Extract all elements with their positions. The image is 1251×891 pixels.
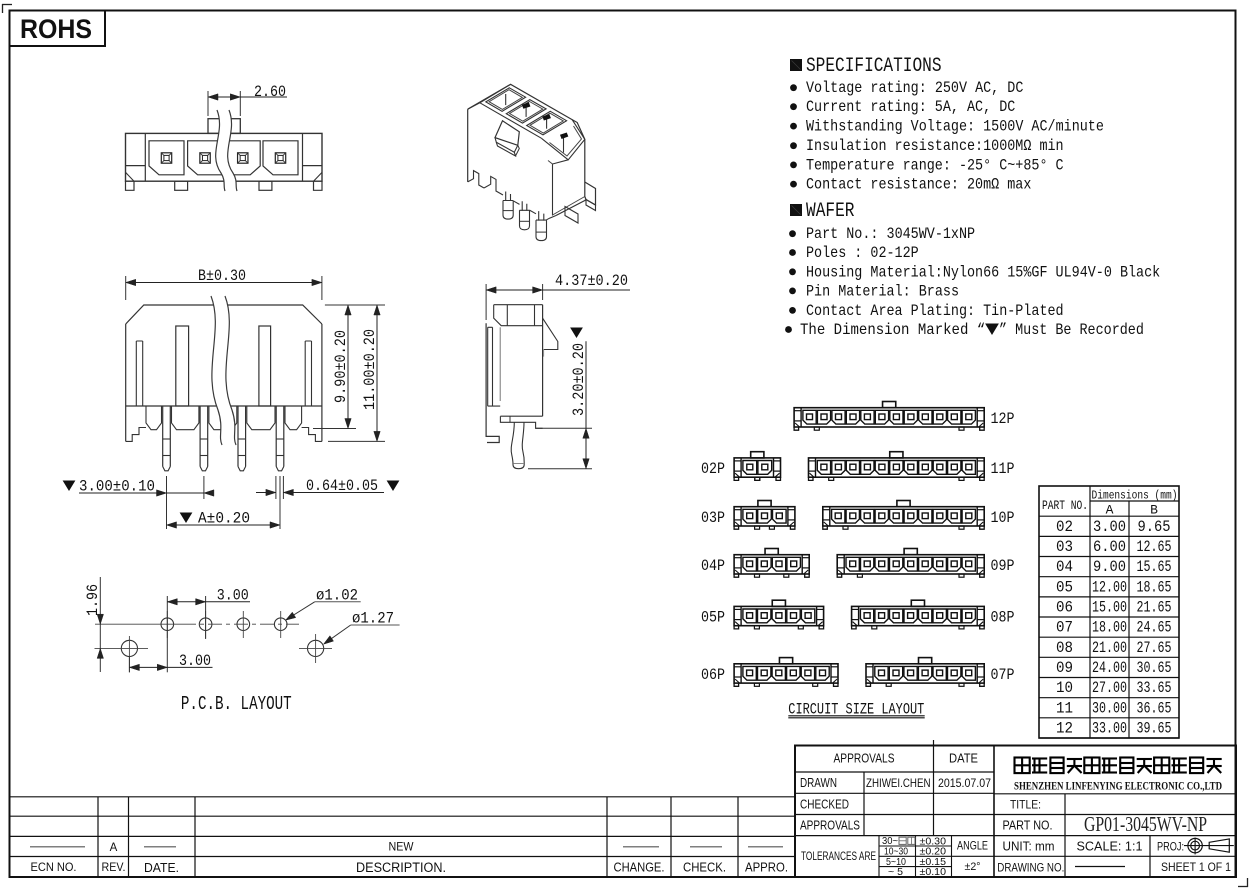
iso top opening 1 <box>486 88 526 112</box>
svg-text:12P: 12P <box>991 410 1015 428</box>
wafer bullet line 3 <box>789 268 796 275</box>
svg-text:30.65: 30.65 <box>1137 659 1172 677</box>
svg-text:Current rating: 5A, AC, DC: Current rating: 5A, AC, DC <box>806 98 1015 116</box>
circuit layout connector 04P <box>734 555 809 574</box>
front view cavity 2 <box>188 141 223 175</box>
svg-text:24.00: 24.00 <box>1092 659 1127 677</box>
svg-text:Part No.: 3045WV-1xNP: Part No.: 3045WV-1xNP <box>806 225 975 243</box>
svg-text:11: 11 <box>1056 699 1073 717</box>
dimension 9.90±0.20 extension lines <box>325 304 385 306</box>
svg-text:07P: 07P <box>991 666 1015 684</box>
dimension 3.20±0.20 line <box>536 427 592 429</box>
front view break lines <box>216 110 237 191</box>
part no dimensions table <box>1039 486 1179 738</box>
svg-text:11P: 11P <box>991 460 1015 478</box>
svg-text:Contact resistance: 20mΩ max: Contact resistance: 20mΩ max <box>806 176 1031 194</box>
pcb hole 1 (ø1.02) <box>161 618 174 631</box>
pcb leader ø1.27 <box>351 624 400 626</box>
svg-text:2015.07.07: 2015.07.07 <box>938 776 991 790</box>
svg-text:±2°: ±2° <box>965 861 981 873</box>
svg-text:4.37±0.20: 4.37±0.20 <box>555 272 628 290</box>
front view pin 2 <box>200 153 210 163</box>
pcb hole 3 (ø1.02) <box>237 618 250 631</box>
revision row A <box>30 846 85 848</box>
circuit layout connector 03P <box>734 507 795 526</box>
svg-text:09: 09 <box>1056 659 1073 677</box>
dimension 3.00±0.10 extension lines <box>166 476 168 529</box>
pcb centerline solid <box>95 623 182 625</box>
svg-text:TOLERANCES ARE: TOLERANCES ARE <box>801 851 876 863</box>
svg-text:1.96: 1.96 <box>84 584 102 616</box>
pcb dim 3.00 bottom <box>128 656 130 672</box>
svg-text:A: A <box>1106 503 1114 518</box>
svg-text:9.90±0.20: 9.90±0.20 <box>332 330 350 403</box>
svg-text:CHECKED: CHECKED <box>800 797 849 812</box>
svg-text:DRAWN: DRAWN <box>800 775 837 790</box>
front view cavity 4 <box>263 141 298 175</box>
svg-text:A±0.20: A±0.20 <box>198 510 250 528</box>
svg-text:3.00±0.10: 3.00±0.10 <box>79 478 155 496</box>
svg-text:~ 5: ~ 5 <box>888 866 903 878</box>
pcb hole left (ø1.27) <box>121 640 137 656</box>
circuit layout connector 09P <box>837 555 984 574</box>
svg-text:DATE.: DATE. <box>144 860 179 875</box>
svg-text:09P: 09P <box>991 557 1015 575</box>
iso pin 3 <box>539 211 544 221</box>
svg-text:05P: 05P <box>701 609 725 627</box>
svg-text:21.65: 21.65 <box>1137 599 1172 617</box>
svg-text:SCALE: 1:1: SCALE: 1:1 <box>1077 840 1143 854</box>
side view pin 2 <box>200 406 208 467</box>
circuit layout connector 02P <box>734 458 780 477</box>
svg-text:15.00: 15.00 <box>1092 599 1127 617</box>
front view cavity 3 <box>225 141 260 175</box>
side view body outline <box>126 305 322 324</box>
svg-text:27.00: 27.00 <box>1092 679 1127 697</box>
svg-text:24.65: 24.65 <box>1137 619 1172 637</box>
iso pin 2 <box>522 201 527 211</box>
side view notched bottom edge <box>146 406 162 430</box>
front view pin 4 <box>275 153 285 163</box>
dimension 4.37±0.20 line <box>486 289 542 291</box>
ROHS logo box <box>10 11 106 47</box>
iso right face edges <box>553 160 569 216</box>
circuit layout connector 12P <box>794 408 984 427</box>
dimension B±0.30 extension lines <box>125 276 127 300</box>
svg-text:Voltage rating: 250V AC, DC: Voltage rating: 250V AC, DC <box>806 79 1023 97</box>
svg-text:Housing Material:Nylon66 15%GF: Housing Material:Nylon66 15%GF UL94V-0 B… <box>806 263 1160 281</box>
svg-text:A: A <box>110 842 118 854</box>
svg-text:Temperature range: -25° C~+85°: Temperature range: -25° C~+85° C <box>806 156 1064 174</box>
svg-text:06: 06 <box>1056 599 1073 617</box>
svg-text:02: 02 <box>1056 518 1073 536</box>
dimension 2.60 line with arrows <box>208 96 287 98</box>
svg-text:±0.10: ±0.10 <box>920 866 947 878</box>
svg-text:CHECK.: CHECK. <box>683 861 726 875</box>
svg-text:SPECIFICATIONS: SPECIFICATIONS <box>806 55 942 78</box>
dimension A±0.20 label <box>181 513 192 522</box>
pcb centerline dashed <box>182 623 299 625</box>
svg-text:PART NO.: PART NO. <box>1042 499 1088 513</box>
spec bullet line 5 <box>790 162 797 169</box>
svg-text:02P: 02P <box>701 460 725 478</box>
circuit layout connector 07P <box>866 664 984 683</box>
pcb leader ø1.02 <box>315 601 361 603</box>
circuit layout connector 06P <box>734 664 838 683</box>
dimension 3.00±0.10 label <box>64 481 75 490</box>
wafer bullet line 2 <box>789 249 796 256</box>
svg-text:B: B <box>1150 503 1158 518</box>
svg-text:APPROVALS: APPROVALS <box>800 818 860 833</box>
svg-text:3.00: 3.00 <box>179 652 211 670</box>
revision table grid <box>97 797 99 877</box>
profile view outline <box>494 304 543 306</box>
wafer bullet line 6 (dimension marked note) <box>785 326 792 333</box>
svg-text:12.65: 12.65 <box>1137 538 1172 556</box>
dimension 2.60 extension lines <box>207 91 209 116</box>
svg-text:Dimensions (mm): Dimensions (mm) <box>1092 489 1178 503</box>
svg-text:21.00: 21.00 <box>1092 639 1127 657</box>
svg-text:18.65: 18.65 <box>1137 578 1172 596</box>
svg-text:ANGLE: ANGLE <box>957 839 988 853</box>
dimension 4.37±0.20 extension lines <box>485 284 487 320</box>
front view pin 3 <box>238 153 248 163</box>
svg-text:33.00: 33.00 <box>1092 719 1127 737</box>
spec bullet line 1 <box>790 84 797 91</box>
svg-text:03: 03 <box>1056 538 1073 556</box>
svg-text:ROHS: ROHS <box>20 14 92 44</box>
svg-text:06P: 06P <box>701 666 725 684</box>
front view connector body <box>126 133 323 181</box>
svg-text:DRAWING NO.: DRAWING NO. <box>997 861 1064 875</box>
front view cavity 1 <box>149 141 184 175</box>
wafer header marker <box>791 205 802 216</box>
svg-text:39.65: 39.65 <box>1137 719 1172 737</box>
iso mounting peg <box>565 207 578 224</box>
spec bullet line 6 <box>790 181 797 188</box>
side view break lines <box>211 296 236 445</box>
pcb dim 3.00 top <box>166 596 168 672</box>
svg-text:10: 10 <box>1056 679 1073 697</box>
specifications header marker <box>791 60 802 71</box>
front view pin 1 <box>161 153 171 163</box>
svg-text:04: 04 <box>1056 558 1073 576</box>
svg-text:04P: 04P <box>701 557 725 575</box>
circuit layout connector 10P <box>823 507 984 526</box>
pcb hole 2 (ø1.02) <box>199 618 212 631</box>
svg-text:APPRO.: APPRO. <box>745 861 788 875</box>
pcb dim 1.96 <box>99 577 101 672</box>
svg-text:15.65: 15.65 <box>1137 558 1172 576</box>
svg-text:Pin Material: Brass: Pin Material: Brass <box>806 282 959 300</box>
projection symbol <box>1188 838 1202 852</box>
svg-text:SHEET 1 OF 1: SHEET 1 OF 1 <box>1161 860 1231 874</box>
spec bullet line 4 <box>790 142 797 149</box>
svg-text:P.C.B. LAYOUT: P.C.B. LAYOUT <box>181 693 292 715</box>
svg-text:07: 07 <box>1056 619 1073 637</box>
svg-text:APPROVALS: APPROVALS <box>834 752 895 766</box>
svg-text:” Must Be Recorded: ” Must Be Recorded <box>999 321 1144 339</box>
iso pin 1 <box>506 192 511 202</box>
front view top polarization tab <box>208 119 240 134</box>
svg-text:2.60: 2.60 <box>254 83 286 101</box>
spec bullet line 2 <box>790 103 797 110</box>
wafer bullet line 4 <box>789 288 796 295</box>
svg-text:SHENZHEN LINFENYING ELECTRONIC: SHENZHEN LINFENYING ELECTRONIC CO.,LTD <box>1014 779 1222 793</box>
wafer bullet line 5 <box>789 307 796 314</box>
dimension 11.00±0.20 line <box>376 305 378 441</box>
isometric 3d view of wafer <box>468 84 585 182</box>
svg-text:WAFER: WAFER <box>806 200 855 223</box>
svg-text:36.65: 36.65 <box>1137 699 1172 717</box>
svg-text:DATE: DATE <box>949 752 978 766</box>
svg-text:12: 12 <box>1056 719 1073 737</box>
svg-text:9.65: 9.65 <box>1138 518 1171 536</box>
svg-text:B±0.30: B±0.30 <box>198 267 246 285</box>
svg-text:ZHIWEI.CHEN: ZHIWEI.CHEN <box>866 776 931 790</box>
svg-text:05: 05 <box>1056 578 1073 596</box>
svg-text:18.00: 18.00 <box>1092 619 1127 637</box>
svg-text:Insulation resistance:1000MΩ m: Insulation resistance:1000MΩ min <box>806 137 1064 155</box>
svg-text:27.65: 27.65 <box>1137 639 1172 657</box>
svg-text:3.00: 3.00 <box>1093 518 1126 536</box>
svg-text:0.64±0.05: 0.64±0.05 <box>306 477 378 495</box>
dimension 3.00±0.10 line <box>79 492 204 494</box>
svg-text:ø1.27: ø1.27 <box>352 610 394 628</box>
side view pin 3 <box>238 406 246 467</box>
dimension 3.20±0.20 marker <box>571 328 582 337</box>
svg-text:TITLE:: TITLE: <box>1010 798 1041 812</box>
svg-text:11.00±0.20: 11.00±0.20 <box>361 329 379 410</box>
circuit layout connector 08P <box>852 606 985 625</box>
svg-text:Withstanding Voltage: 1500V AC: Withstanding Voltage: 1500V AC/minute <box>806 118 1104 136</box>
svg-text:CHANGE.: CHANGE. <box>614 861 665 875</box>
svg-text:12.00: 12.00 <box>1092 578 1127 596</box>
svg-text:PROJ:: PROJ: <box>1157 842 1184 854</box>
svg-text:NEW: NEW <box>389 842 414 854</box>
svg-text:10P: 10P <box>991 509 1015 527</box>
svg-text:3.20±0.20: 3.20±0.20 <box>570 343 588 416</box>
svg-text:DESCRIPTION.: DESCRIPTION. <box>356 860 446 875</box>
svg-text:PART NO.: PART NO. <box>1003 819 1053 833</box>
circuit layout connector 05P <box>734 606 824 625</box>
svg-text:30.00: 30.00 <box>1092 699 1127 717</box>
svg-text:UNIT: mm: UNIT: mm <box>1003 840 1055 854</box>
iso latch bump <box>495 121 519 146</box>
dimension A±0.20 line <box>279 476 281 529</box>
svg-text:33.65: 33.65 <box>1137 679 1172 697</box>
wafer bullet line 1 <box>789 230 796 237</box>
svg-text:GP01-3045WV-NP: GP01-3045WV-NP <box>1084 812 1207 836</box>
svg-text:The Dimension Marked “: The Dimension Marked “ <box>800 321 985 339</box>
svg-text:ø1.02: ø1.02 <box>316 587 358 605</box>
pcb hole 4 (ø1.02) <box>274 618 287 631</box>
spec bullet line 3 <box>790 123 797 130</box>
iso chamfer face opening <box>541 120 585 160</box>
iso top opening 3 <box>527 111 567 135</box>
dimension 0.64±0.05 lines <box>275 476 277 499</box>
side view pin 4 <box>276 406 284 467</box>
svg-text:Contact Area Plating: Tin-Plat: Contact Area Plating: Tin-Plated <box>806 302 1064 320</box>
svg-text:3.00: 3.00 <box>217 587 249 605</box>
corner crop mark top-left <box>2 4 12 6</box>
svg-text:03P: 03P <box>701 509 725 527</box>
svg-text:REV.: REV. <box>102 862 126 874</box>
dimension 9.90±0.20 line <box>347 305 349 429</box>
dimension B±0.30 line <box>126 282 322 284</box>
iso top opening 2 <box>506 100 546 124</box>
circuit layout connector 11P <box>809 458 985 477</box>
svg-text:ECN NO.: ECN NO. <box>31 862 77 874</box>
svg-text:08: 08 <box>1056 639 1073 657</box>
svg-text:9.00: 9.00 <box>1093 558 1126 576</box>
svg-text:08P: 08P <box>991 609 1015 627</box>
svg-text:6.00: 6.00 <box>1093 538 1126 556</box>
pcb hole right (ø1.27) <box>308 640 324 656</box>
svg-text:Poles : 02-12P: Poles : 02-12P <box>806 244 919 262</box>
corner crop mark bottom-right <box>1238 886 1248 888</box>
side view pin 1 <box>163 406 171 467</box>
title block frame <box>795 746 1236 878</box>
company name chinese <box>1015 758 1030 774</box>
